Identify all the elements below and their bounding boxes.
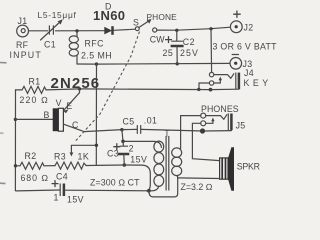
- svg-text:J1: J1: [18, 16, 28, 26]
- svg-text:CW: CW: [150, 35, 165, 45]
- node collector: [120, 128, 123, 131]
- node R2: [14, 164, 17, 167]
- node base: [14, 118, 17, 121]
- svg-text:C5: C5: [123, 117, 135, 127]
- node at RFC tap: [75, 29, 78, 32]
- svg-text:25V: 25V: [180, 48, 199, 58]
- svg-text:Z=300 Ω CT: Z=300 Ω CT: [90, 178, 140, 188]
- secondary winding: [172, 148, 182, 157]
- svg-text:2N256: 2N256: [51, 75, 101, 92]
- wire RFC to node: [77, 63, 97, 65]
- wire speaker bottom: [178, 177, 220, 180]
- svg-text:E: E: [66, 101, 72, 111]
- svg-text:220 Ω: 220 Ω: [20, 95, 49, 105]
- node: [209, 88, 213, 92]
- svg-text:R2: R2: [25, 151, 37, 161]
- resistor R3 1K: [54, 152, 89, 170]
- jack J5 (phones, closed circuit): [200, 113, 246, 133]
- svg-text:SPKR: SPKR: [237, 162, 260, 172]
- wire J5 mid to speaker: [192, 123, 219, 160]
- svg-text:R1: R1: [29, 77, 41, 87]
- wire switch to J2: [157, 27, 230, 30]
- svg-text:1K: 1K: [78, 152, 90, 162]
- svg-text:C3: C3: [107, 149, 119, 159]
- node C3 bottom: [123, 163, 127, 167]
- svg-text:C: C: [72, 120, 79, 130]
- switch arm at R3: [70, 144, 99, 157]
- svg-text:PHONES: PHONES: [201, 104, 239, 114]
- wire R3 to transformer return: [86, 165, 150, 191]
- wire J1 to C1: [29, 30, 48, 32]
- primary winding: [154, 141, 164, 152]
- node transformer return: [147, 189, 151, 193]
- svg-text:2.5 MH: 2.5 MH: [81, 51, 112, 61]
- node emitter: [78, 87, 81, 90]
- svg-text:Z=3.2 Ω: Z=3.2 Ω: [181, 182, 213, 192]
- inductor RFC 2.5MH: [69, 31, 112, 64]
- node C3 top: [121, 140, 125, 144]
- svg-text:V: V: [56, 98, 62, 108]
- svg-text:C2: C2: [183, 37, 195, 47]
- capacitor C4: [15, 172, 149, 205]
- svg-text:RFC: RFC: [85, 39, 105, 49]
- wire C1 to diode D: [55, 30, 104, 32]
- node C2 top: [175, 29, 178, 32]
- svg-text:L5-15μμf: L5-15μμf: [38, 10, 77, 20]
- node J4 branch: [209, 27, 212, 30]
- node: [197, 88, 200, 91]
- diode D 1N60: [93, 2, 125, 35]
- wire node to transformer primary: [123, 141, 161, 147]
- wire node to J3: [97, 62, 230, 65]
- wire diode to switch: [114, 29, 136, 30]
- capacitor C1 (variable): [38, 10, 77, 50]
- svg-text:680 Ω: 680 Ω: [21, 173, 49, 183]
- svg-text:C4: C4: [56, 172, 68, 182]
- svg-text:J4: J4: [244, 68, 254, 78]
- svg-text:PHONE: PHONE: [147, 12, 178, 22]
- wire emitter rail: [80, 88, 211, 91]
- resistor R2 680 ohm: [16, 151, 56, 183]
- transistor Q1 2N256: [15, 89, 84, 132]
- svg-text:R3: R3: [54, 152, 66, 162]
- svg-text:1N60: 1N60: [93, 8, 125, 23]
- wire C5 node down to C3 node: [122, 130, 123, 142]
- jack J1: [10, 16, 42, 60]
- svg-text:J2: J2: [244, 23, 254, 33]
- resistor R1 220 ohm: [16, 77, 80, 106]
- svg-text:15V: 15V: [130, 154, 147, 164]
- edge marks: [0, 62, 7, 64]
- svg-text:J5: J5: [236, 121, 246, 131]
- svg-text:C1: C1: [44, 40, 56, 50]
- node RFC/J3: [95, 62, 98, 65]
- speaker SPKR: [220, 147, 260, 191]
- node C2 bottom: [176, 62, 179, 65]
- wire bottom return: [149, 178, 178, 197]
- svg-text:25: 25: [163, 48, 174, 58]
- wire J5 top to secondary: [181, 116, 201, 149]
- wire J2 node to J4: [210, 29, 213, 73]
- left rail: [14, 90, 16, 191]
- svg-text:T: T: [164, 129, 170, 139]
- svg-text:.01: .01: [144, 116, 158, 126]
- minus label: [232, 54, 238, 56]
- jack J2: [230, 11, 253, 33]
- svg-text:KEY: KEY: [244, 78, 272, 88]
- wire collector to C5 node: [84, 130, 122, 132]
- wire J4 lower contact: [199, 83, 209, 89]
- capacitor C5 .01: [122, 116, 203, 134]
- capacitor C2: [163, 30, 199, 63]
- wire vertical bus: [95, 64, 97, 165]
- switch S second pole (dashed link): [76, 32, 140, 142]
- capacitor C3: [107, 141, 147, 165]
- svg-text:15V: 15V: [67, 194, 84, 204]
- svg-text:INPUT: INPUT: [10, 50, 42, 60]
- wire rail to J4 sleeve: [211, 88, 239, 90]
- jack J4 (key, closed circuit): [209, 68, 271, 89]
- transformer T: [149, 129, 182, 191]
- switch S: [133, 12, 177, 45]
- svg-text:RF: RF: [16, 40, 29, 50]
- svg-text:S: S: [133, 18, 139, 28]
- jack J3: [230, 58, 252, 70]
- svg-text:1: 1: [54, 193, 59, 203]
- svg-text:2: 2: [129, 144, 134, 154]
- svg-text:B: B: [44, 110, 50, 120]
- svg-text:3 OR 6 V BATT: 3 OR 6 V BATT: [213, 42, 278, 52]
